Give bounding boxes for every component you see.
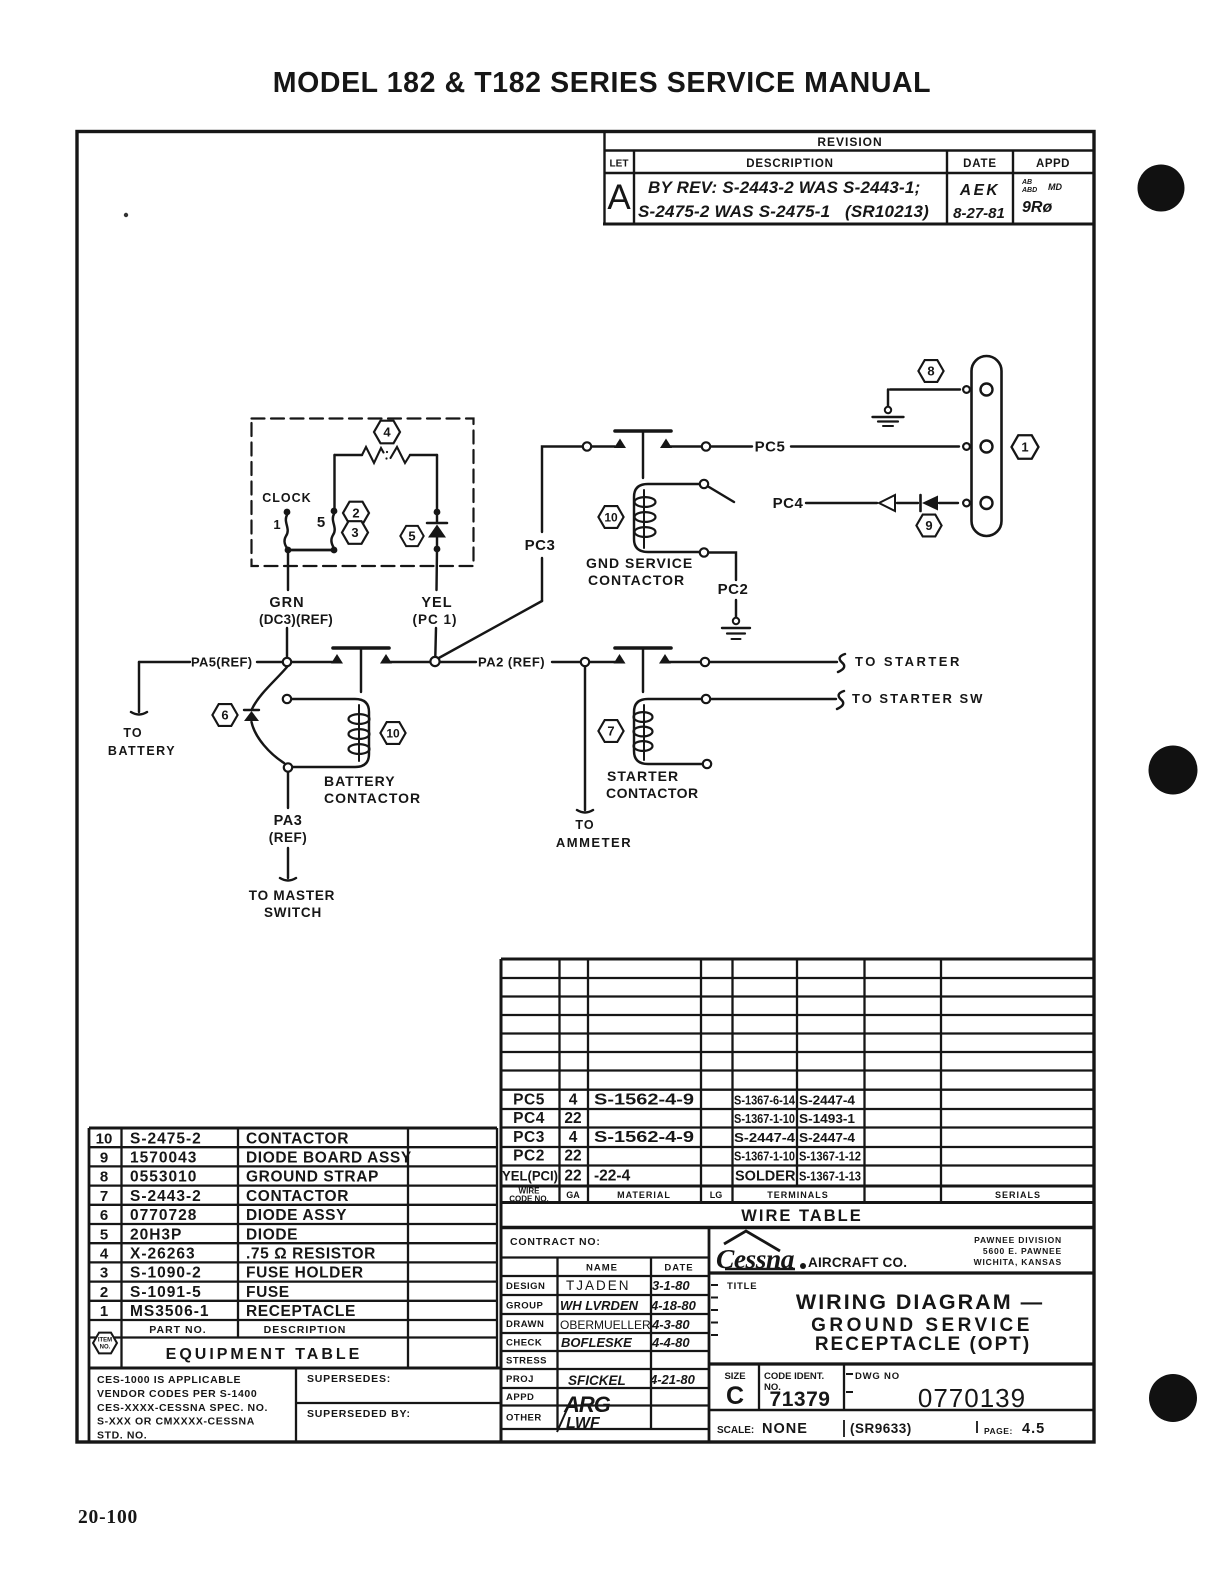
- svg-text:BY REV: S-2443-2 WAS S-2443-1;: BY REV: S-2443-2 WAS S-2443-1;: [648, 178, 920, 197]
- svg-text:RECEPTACLE (OPT): RECEPTACLE (OPT): [815, 1334, 1031, 1355]
- svg-text:GA: GA: [566, 1190, 580, 1200]
- svg-text:MD: MD: [1048, 182, 1062, 192]
- svg-text:SUPERSEDES:: SUPERSEDES:: [307, 1373, 391, 1385]
- svg-text:2: 2: [352, 506, 359, 521]
- svg-text:OBERMUELLER: OBERMUELLER: [560, 1318, 651, 1332]
- svg-text:DATE: DATE: [963, 158, 997, 170]
- svg-text:TO STARTER: TO STARTER: [855, 654, 962, 669]
- svg-text:S-1367-1-13: S-1367-1-13: [799, 1169, 861, 1184]
- svg-text:CONTACTOR: CONTACTOR: [246, 1188, 349, 1205]
- svg-text:BATTERY: BATTERY: [108, 744, 176, 758]
- svg-text:BATTERY: BATTERY: [324, 773, 396, 789]
- svg-text:SFICKEL: SFICKEL: [568, 1373, 626, 1388]
- svg-text:AMMETER: AMMETER: [556, 835, 632, 850]
- svg-text:PA5(REF): PA5(REF): [191, 655, 252, 670]
- svg-text:22: 22: [564, 1110, 581, 1127]
- svg-text:3: 3: [100, 1265, 108, 1282]
- svg-text:PC3: PC3: [513, 1129, 545, 1146]
- svg-text:NAME: NAME: [586, 1263, 618, 1274]
- svg-text:S-2447-4: S-2447-4: [799, 1130, 856, 1145]
- svg-text:SIZE: SIZE: [724, 1371, 745, 1382]
- svg-text:ITEM: ITEM: [98, 1338, 112, 1344]
- svg-text:0553010: 0553010: [130, 1169, 197, 1186]
- svg-text:S-1367-1-12: S-1367-1-12: [799, 1149, 861, 1164]
- svg-text:S-2443-2: S-2443-2: [130, 1188, 202, 1205]
- svg-text:DESIGN: DESIGN: [506, 1281, 545, 1292]
- svg-text:DRAWN: DRAWN: [506, 1319, 544, 1330]
- svg-text:S-1367-1-10: S-1367-1-10: [734, 1111, 795, 1126]
- svg-text:X-26263: X-26263: [130, 1246, 196, 1263]
- svg-text:BOFLESKE: BOFLESKE: [561, 1335, 632, 1350]
- svg-text:1570043: 1570043: [130, 1150, 197, 1167]
- svg-text:S-2475-2: S-2475-2: [130, 1130, 202, 1147]
- svg-text:4-4-80: 4-4-80: [651, 1335, 690, 1350]
- svg-text:DIODE BOARD ASSY: DIODE BOARD ASSY: [246, 1150, 412, 1167]
- svg-text:(SR9633): (SR9633): [850, 1421, 912, 1436]
- svg-text:TO MASTER: TO MASTER: [249, 888, 335, 903]
- svg-text:WIRE TABLE: WIRE TABLE: [741, 1207, 862, 1225]
- svg-text:ABD: ABD: [1021, 187, 1037, 194]
- svg-text:20H3P: 20H3P: [130, 1226, 182, 1243]
- svg-text:YEL: YEL: [421, 595, 452, 611]
- svg-text:WIRING DIAGRAM —: WIRING DIAGRAM —: [796, 1290, 1044, 1314]
- svg-text:EQUIPMENT TABLE: EQUIPMENT TABLE: [166, 1346, 363, 1363]
- svg-text:PROJ: PROJ: [506, 1374, 534, 1385]
- svg-text:CONTACTOR: CONTACTOR: [324, 790, 421, 806]
- svg-text:1: 1: [100, 1303, 108, 1320]
- svg-text:DESCRIPTION: DESCRIPTION: [264, 1324, 347, 1336]
- svg-text:7: 7: [607, 724, 614, 739]
- svg-text:0770139: 0770139: [918, 1383, 1026, 1413]
- svg-text:SOLDER: SOLDER: [735, 1169, 796, 1185]
- svg-text:CODE IDENT.: CODE IDENT.: [764, 1371, 824, 1382]
- svg-text:PC4: PC4: [513, 1110, 545, 1127]
- svg-text:9: 9: [925, 518, 932, 533]
- svg-text:PC5: PC5: [755, 439, 786, 456]
- svg-text:4-18-80: 4-18-80: [650, 1298, 697, 1313]
- svg-text:A: A: [607, 178, 631, 217]
- svg-text:4: 4: [569, 1129, 578, 1146]
- svg-text:4-21-80: 4-21-80: [649, 1372, 696, 1387]
- svg-text:WICHITA, KANSAS: WICHITA, KANSAS: [974, 1257, 1062, 1267]
- svg-text:CONTACTOR: CONTACTOR: [588, 572, 685, 588]
- svg-text:SUPERSEDED BY:: SUPERSEDED BY:: [307, 1408, 411, 1420]
- svg-text:0770728: 0770728: [130, 1207, 197, 1224]
- svg-text:MODEL 182 & T182 SERIES SERVIC: MODEL 182 & T182 SERIES SERVICE MANUAL: [273, 67, 931, 99]
- svg-text:CONTRACT NO:: CONTRACT NO:: [510, 1236, 601, 1248]
- svg-text:PA2 (REF): PA2 (REF): [478, 655, 545, 670]
- svg-text:C: C: [726, 1382, 744, 1410]
- svg-text:S-XXX OR CMXXXX-CESSNA: S-XXX OR CMXXXX-CESSNA: [97, 1416, 255, 1428]
- svg-text:5: 5: [408, 529, 415, 544]
- svg-text:S-2447-4: S-2447-4: [799, 1093, 856, 1108]
- svg-text:LG: LG: [710, 1190, 723, 1200]
- svg-text:OTHER: OTHER: [506, 1413, 542, 1424]
- svg-text:PC3: PC3: [525, 537, 556, 554]
- svg-text:DATE: DATE: [664, 1263, 693, 1274]
- svg-text:TO: TO: [575, 818, 594, 832]
- svg-text:GROUND SERVICE: GROUND SERVICE: [811, 1315, 1033, 1336]
- svg-text:VENDOR CODES PER S-1400: VENDOR CODES PER S-1400: [97, 1388, 257, 1400]
- svg-text:8: 8: [927, 364, 934, 379]
- svg-text:2: 2: [100, 1284, 108, 1301]
- svg-text:S-2447-4: S-2447-4: [734, 1130, 796, 1145]
- svg-text:TO STARTER SW: TO STARTER SW: [852, 691, 984, 706]
- svg-text:22: 22: [564, 1148, 581, 1165]
- svg-text:1: 1: [273, 517, 280, 532]
- svg-text:NO.: NO.: [100, 1345, 111, 1351]
- svg-text:PC4: PC4: [773, 495, 804, 512]
- svg-text:4: 4: [383, 425, 391, 440]
- svg-text:S-1493-1: S-1493-1: [799, 1111, 855, 1126]
- svg-text:APPD: APPD: [1036, 158, 1070, 170]
- svg-text:(DC3)(REF): (DC3)(REF): [259, 612, 333, 627]
- svg-text:DIODE ASSY: DIODE ASSY: [246, 1207, 347, 1224]
- svg-text:20-100: 20-100: [78, 1507, 138, 1528]
- svg-text:GROUP: GROUP: [506, 1301, 544, 1312]
- svg-text:CONTACTOR: CONTACTOR: [606, 785, 699, 801]
- svg-text:PC2: PC2: [718, 581, 749, 598]
- svg-text:YEL(PCI): YEL(PCI): [502, 1168, 558, 1184]
- svg-text:S-1367-1-10: S-1367-1-10: [734, 1149, 795, 1164]
- svg-text:AIRCRAFT CO.: AIRCRAFT CO.: [808, 1255, 907, 1270]
- svg-text:8: 8: [100, 1169, 108, 1186]
- svg-text:9: 9: [100, 1150, 108, 1167]
- svg-text:SCALE:: SCALE:: [717, 1425, 754, 1436]
- svg-text:WH LVRDEN: WH LVRDEN: [560, 1298, 639, 1313]
- svg-text:3-1-80: 3-1-80: [652, 1278, 690, 1293]
- svg-text:MS3506-1: MS3506-1: [130, 1303, 210, 1320]
- svg-text:TERMINALS: TERMINALS: [767, 1190, 829, 1200]
- svg-text:(REF): (REF): [269, 830, 308, 845]
- svg-text:AB: AB: [1021, 179, 1032, 186]
- svg-text:CLOCK: CLOCK: [262, 491, 311, 505]
- svg-text:22: 22: [564, 1168, 581, 1185]
- svg-text:GND SERVICE: GND SERVICE: [586, 555, 693, 571]
- svg-text:-22-4: -22-4: [594, 1168, 631, 1185]
- svg-text:DIODE: DIODE: [246, 1226, 298, 1243]
- svg-text:FUSE: FUSE: [246, 1284, 290, 1301]
- svg-text:PAGE:: PAGE:: [984, 1426, 1013, 1436]
- svg-text:5: 5: [317, 514, 325, 531]
- svg-text:CHECK: CHECK: [506, 1338, 542, 1349]
- svg-text:PC5: PC5: [513, 1092, 545, 1109]
- svg-text:STARTER: STARTER: [607, 768, 679, 784]
- svg-text:7: 7: [100, 1188, 108, 1205]
- svg-text:CES-1000 IS APPLICABLE: CES-1000 IS APPLICABLE: [97, 1374, 241, 1386]
- svg-text:STRESS: STRESS: [506, 1356, 547, 1367]
- svg-text:1: 1: [1021, 440, 1028, 455]
- svg-text:DWG NO: DWG NO: [855, 1371, 900, 1382]
- svg-text:S-1090-2: S-1090-2: [130, 1265, 202, 1282]
- svg-text:3: 3: [351, 525, 358, 540]
- svg-text:GROUND STRAP: GROUND STRAP: [246, 1169, 379, 1186]
- svg-text:6: 6: [221, 708, 228, 723]
- svg-text:FUSE HOLDER: FUSE HOLDER: [246, 1265, 364, 1282]
- svg-text:REVISION: REVISION: [817, 135, 882, 149]
- svg-text:4.5: 4.5: [1022, 1421, 1045, 1437]
- svg-text:S-2475-2 WAS S-2475-1 (SR102: S-2475-2 WAS S-2475-1 (SR10213): [638, 202, 929, 221]
- svg-text:NONE: NONE: [762, 1421, 808, 1437]
- svg-text:S-1562-4-9: S-1562-4-9: [594, 1129, 694, 1146]
- svg-text:PART NO.: PART NO.: [149, 1324, 206, 1336]
- svg-text:5600 E. PAWNEE: 5600 E. PAWNEE: [983, 1246, 1062, 1256]
- svg-text:S-1367-6-14: S-1367-6-14: [734, 1093, 796, 1108]
- svg-text:RECEPTACLE: RECEPTACLE: [246, 1303, 356, 1320]
- svg-text:4: 4: [569, 1092, 578, 1109]
- svg-text:PAWNEE DIVISION: PAWNEE DIVISION: [974, 1235, 1062, 1245]
- svg-text:CES-XXXX-CESSNA SPEC. NO.: CES-XXXX-CESSNA SPEC. NO.: [97, 1402, 268, 1414]
- svg-text:8-27-81: 8-27-81: [953, 205, 1005, 222]
- svg-text:CODE NO.: CODE NO.: [509, 1195, 549, 1204]
- svg-text:TO: TO: [123, 726, 142, 740]
- svg-text:4: 4: [100, 1246, 109, 1263]
- svg-text:10: 10: [386, 727, 400, 741]
- svg-text:MATERIAL: MATERIAL: [617, 1190, 671, 1200]
- svg-text:LET: LET: [610, 159, 629, 170]
- svg-text:TITLE: TITLE: [727, 1281, 757, 1292]
- svg-text:Cessna: Cessna: [716, 1243, 795, 1274]
- svg-text:APPD: APPD: [506, 1392, 534, 1403]
- svg-text:10: 10: [96, 1130, 113, 1147]
- svg-text:GRN: GRN: [269, 595, 304, 611]
- svg-text:SWITCH: SWITCH: [264, 905, 322, 920]
- svg-text:PC2: PC2: [513, 1148, 545, 1165]
- svg-text:S-1091-5: S-1091-5: [130, 1284, 202, 1301]
- svg-text:CONTACTOR: CONTACTOR: [246, 1130, 349, 1147]
- svg-text:6: 6: [100, 1207, 108, 1224]
- svg-text:SERIALS: SERIALS: [995, 1190, 1041, 1200]
- svg-text:(PC 1): (PC 1): [412, 612, 457, 627]
- svg-text:STD. NO.: STD. NO.: [97, 1430, 147, 1442]
- svg-text:LWF: LWF: [566, 1415, 601, 1432]
- svg-text:4-3-80: 4-3-80: [651, 1317, 690, 1332]
- svg-text:9Rø: 9Rø: [1022, 199, 1052, 216]
- svg-text:5: 5: [100, 1226, 108, 1243]
- svg-text:S-1562-4-9: S-1562-4-9: [594, 1092, 694, 1109]
- svg-text:AEK: AEK: [959, 182, 1000, 199]
- svg-text:10: 10: [604, 511, 618, 525]
- svg-text:TJADEN: TJADEN: [566, 1278, 631, 1293]
- svg-text:.75 Ω RESISTOR: .75 Ω RESISTOR: [246, 1246, 376, 1263]
- svg-text:71379: 71379: [770, 1388, 831, 1411]
- svg-text:PA3: PA3: [274, 813, 303, 829]
- svg-text:DESCRIPTION: DESCRIPTION: [746, 158, 833, 170]
